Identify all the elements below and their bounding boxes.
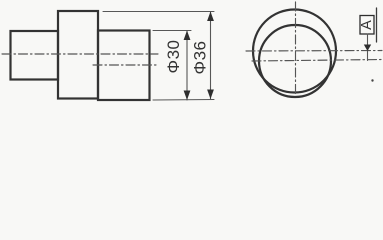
horizontal centerline large [246, 50, 382, 53]
large circle [253, 10, 336, 93]
extension line bottom [153, 99, 214, 102]
horizontal centerline small [252, 60, 382, 62]
svg-text:Φ30: Φ30 [164, 40, 183, 74]
datum leader [367, 34, 369, 61]
extension line top phi30 [153, 30, 191, 32]
arrow phi30 top [184, 31, 191, 41]
arrow phi30 bottom [184, 91, 191, 101]
datum triangle [364, 45, 371, 52]
left small cylinder rect [11, 31, 59, 80]
mystery vertical line [376, 8, 378, 42]
dimension line phi30 [186, 31, 188, 101]
datum box [360, 16, 374, 35]
middle large cylinder rect [58, 11, 98, 99]
small circle [259, 25, 331, 97]
svg-text:A: A [359, 20, 375, 30]
dimension line phi36 [210, 12, 212, 100]
upper centerline [2, 53, 158, 55]
arrow phi36 top [207, 12, 214, 22]
lower centerline [93, 64, 158, 66]
extension line top phi36 [103, 11, 214, 13]
vertical centerline [295, 2, 297, 95]
speck [371, 79, 373, 81]
right cylinder rect [98, 31, 150, 101]
arrow phi36 bottom [207, 90, 214, 100]
svg-text:Φ36: Φ36 [190, 41, 209, 75]
